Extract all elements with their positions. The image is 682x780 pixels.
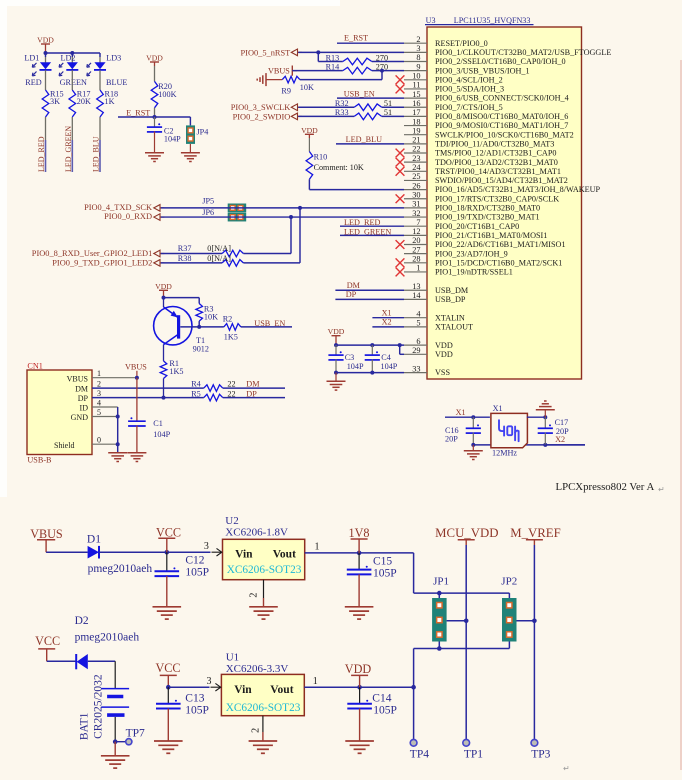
svg-text:GREEN: GREEN — [60, 78, 87, 87]
svg-text:LED_BLU: LED_BLU — [346, 135, 382, 144]
U3 pin 5 XTALOUT — [404, 319, 473, 332]
resistor R9 — [266, 76, 314, 95]
net label DP (pin 14) — [335, 290, 404, 299]
svg-text:5: 5 — [97, 408, 101, 417]
ground below C14 — [345, 741, 374, 753]
U3 pin 24 TRST — [396, 163, 561, 176]
U1 pin 2 to ground — [249, 716, 278, 754]
svg-text:XTALIN: XTALIN — [435, 313, 465, 322]
svg-text:10: 10 — [412, 72, 420, 81]
wire LD1 cathode to resistor — [45, 70, 47, 90]
junction VBUS pin1 — [135, 376, 139, 380]
U3 pin 20 PIO0_22 — [396, 236, 566, 249]
net label USB_EN (pin 15) — [337, 90, 404, 99]
svg-text:105P: 105P — [373, 705, 397, 717]
svg-text:LED_RED: LED_RED — [37, 136, 46, 172]
svg-text:VCC: VCC — [156, 525, 181, 539]
svg-text:X2: X2 — [555, 435, 565, 444]
svg-text:4: 4 — [97, 398, 101, 407]
junction 1V8 node — [357, 551, 362, 556]
svg-text:Vin: Vin — [234, 684, 252, 696]
page edge mark — [563, 60, 681, 773]
svg-text:X1: X1 — [456, 408, 466, 417]
U3 pin 28 PIO1_15 — [396, 255, 563, 268]
resistor R32 — [298, 99, 404, 111]
power MCU_VDD — [435, 526, 498, 545]
wire R13 to pin 8 — [372, 61, 404, 63]
svg-text:1: 1 — [313, 676, 318, 687]
svg-text:pmeg2010aeh: pmeg2010aeh — [88, 563, 153, 575]
resistor R4 (DM series) — [191, 380, 235, 392]
svg-text:VBUS: VBUS — [30, 527, 63, 541]
capacitor C16 — [445, 417, 481, 445]
CN1 pin 5 GND stub — [92, 408, 118, 417]
svg-text:0[N/A]: 0[N/A] — [207, 244, 231, 253]
junction JP1 middle to MCU_VDD — [464, 619, 469, 624]
svg-text:X1: X1 — [493, 404, 503, 413]
power VDD (LED rail) — [37, 36, 54, 54]
wire U1 Vout to VDD — [304, 676, 413, 687]
svg-text:LD3: LD3 — [106, 54, 121, 63]
svg-text:XC6206-3.3V: XC6206-3.3V — [226, 663, 289, 675]
ground below BAT1 — [101, 742, 130, 768]
U3 pin 17 PIO0_8 — [404, 108, 568, 121]
svg-text:VBUS: VBUS — [125, 363, 147, 372]
net label DM (pin 13) — [335, 281, 404, 290]
U3 pin 32 PIO0_19 — [404, 209, 540, 222]
net label VBUS (CN1) — [125, 363, 147, 378]
wire LD1 net — [37, 117, 46, 172]
junction VDD rail — [334, 343, 402, 347]
net label E_RST — [126, 109, 150, 118]
svg-text:6: 6 — [416, 337, 420, 346]
svg-text:29: 29 — [412, 346, 420, 355]
svg-text:1: 1 — [416, 264, 420, 273]
svg-text:USB_DM: USB_DM — [435, 286, 469, 295]
svg-text:TP1: TP1 — [464, 748, 483, 760]
svg-text:100K: 100K — [158, 90, 176, 99]
svg-text:PIO0_5_nRST: PIO0_5_nRST — [241, 49, 291, 58]
U3 pin 16 PIO0_7 — [404, 99, 503, 112]
U3 pin 18 PIO0_9 — [404, 117, 568, 130]
capacitor C3 — [328, 345, 364, 371]
ground below C12 — [153, 607, 182, 619]
CN1 pin 2 DM stub — [92, 379, 204, 388]
svg-text:20: 20 — [412, 236, 420, 245]
svg-text:VDD: VDD — [435, 350, 453, 359]
ground below C2 — [145, 153, 164, 162]
U3 pin 4 XTALIN — [404, 309, 465, 322]
svg-text:PIO0_3_SWCLK: PIO0_3_SWCLK — [231, 103, 291, 112]
svg-text:DM: DM — [347, 281, 361, 290]
wire TP4 vertical — [413, 687, 415, 739]
svg-text:LED_BLU: LED_BLU — [92, 136, 101, 172]
svg-text:20K: 20K — [77, 97, 91, 106]
IC U3 LPC11U35_HVQFN33 body — [425, 16, 582, 379]
svg-text:PIO0_17/RTS/CT32B0_CAP0/SCLK: PIO0_17/RTS/CT32B0_CAP0/SCLK — [435, 194, 559, 203]
svg-text:C1: C1 — [153, 419, 163, 428]
svg-text:R9: R9 — [281, 86, 291, 95]
svg-text:PIO0_18/RXD/CT32B0_MAT0: PIO0_18/RXD/CT32B0_MAT0 — [435, 204, 540, 213]
svg-text:PIO0_4/SCL/IOH_2: PIO0_4/SCL/IOH_2 — [435, 75, 503, 84]
svg-text:9: 9 — [416, 62, 420, 71]
wire LD2 cathode to resistor — [71, 70, 73, 90]
U3 pin 2 RESET — [404, 35, 488, 48]
svg-text:D1: D1 — [87, 533, 101, 545]
svg-text:14: 14 — [412, 291, 421, 300]
wire D1 to VCC node — [99, 551, 211, 553]
svg-text:104P: 104P — [347, 362, 364, 371]
svg-text:33: 33 — [412, 364, 420, 373]
svg-text:SWDIO/PIO0_15/AD4/CT32B1_MAT2: SWDIO/PIO0_15/AD4/CT32B1_MAT2 — [435, 176, 568, 185]
svg-text:VDD: VDD — [435, 341, 453, 350]
header JP1 — [432, 576, 466, 649]
svg-text:VSS: VSS — [435, 368, 450, 377]
svg-text:1K: 1K — [105, 97, 115, 106]
capacitor C4 — [365, 345, 398, 371]
svg-text:8: 8 — [416, 53, 420, 62]
capacitor C12 — [155, 552, 210, 607]
U3 pin 15 PIO0_6 — [404, 90, 569, 103]
resistor R13 — [326, 53, 388, 65]
net label LED_BLU (pin 21) — [336, 135, 404, 144]
svg-text:3: 3 — [204, 541, 209, 552]
resistor R5 (DP series) — [191, 389, 235, 401]
ground (R9 pulldown) — [257, 73, 266, 86]
wire step to pin 29 — [400, 345, 404, 354]
capacitor C2 — [147, 117, 181, 153]
U3 pin 30 PIO0_17 — [396, 190, 560, 203]
svg-text:19: 19 — [412, 126, 420, 135]
svg-text:13: 13 — [412, 282, 420, 291]
capacitor C14 — [347, 687, 397, 741]
svg-text:PIO0_2/SSEL0/CT16B0_CAP0/IOH_0: PIO0_2/SSEL0/CT16B0_CAP0/IOH_0 — [435, 57, 566, 66]
svg-text:DM: DM — [75, 385, 88, 394]
svg-text:Vout: Vout — [270, 684, 293, 696]
junction TXD wire — [298, 206, 302, 210]
svg-text:VCC: VCC — [156, 661, 181, 675]
svg-text:BLUE: BLUE — [106, 78, 127, 87]
junction JP1 top — [437, 591, 442, 596]
wire VCC to U1 — [168, 686, 209, 688]
power VDD (T1) — [155, 282, 172, 298]
svg-text:TP7: TP7 — [126, 728, 145, 740]
wire T1 collector to R1 — [163, 345, 165, 361]
wire nRST drop to R13 — [318, 52, 343, 61]
svg-text:1: 1 — [97, 369, 101, 378]
wire battery to ground — [114, 717, 116, 742]
svg-text:VCC: VCC — [35, 634, 60, 648]
svg-text:VDD: VDD — [37, 36, 54, 45]
resistor R15 — [42, 89, 63, 117]
port PIO0_2_SWDIO — [233, 112, 302, 121]
svg-text:R33: R33 — [335, 108, 349, 117]
junction RXD wire — [289, 215, 293, 219]
svg-text:PIO0_0_RXD: PIO0_0_RXD — [104, 212, 152, 221]
junction VSS rail — [334, 371, 374, 375]
ground below C1 — [127, 453, 146, 462]
power VCC (D2) — [35, 634, 60, 661]
wire RXD to pin 32 — [161, 216, 404, 218]
LED LD1 — [24, 54, 51, 88]
svg-text:30: 30 — [412, 190, 420, 199]
junction VCC/C13 — [166, 685, 171, 690]
svg-text:VDD: VDD — [301, 126, 318, 135]
wire ID/GND/Shield to ground — [116, 407, 120, 453]
svg-text:D2: D2 — [75, 615, 89, 627]
svg-text:JP4: JP4 — [197, 128, 209, 137]
svg-text:LPC11U35_HVQFN33: LPC11U35_HVQFN33 — [454, 16, 531, 25]
svg-text:ID: ID — [80, 404, 89, 413]
svg-text:C4: C4 — [381, 353, 391, 362]
svg-text:X1: X1 — [382, 308, 392, 317]
svg-text:27: 27 — [412, 245, 420, 254]
svg-text:PIO0_5/SDA/IOH_3: PIO0_5/SDA/IOH_3 — [435, 85, 504, 94]
wire VDD to R3 — [164, 298, 200, 304]
power VDD (U1 out) — [345, 662, 372, 687]
svg-text:0[N/A]: 0[N/A] — [207, 254, 231, 263]
svg-text:LPCXpresso802 Ver A: LPCXpresso802 Ver A — [556, 481, 655, 493]
wire M_VREF vertical — [533, 545, 535, 739]
wire VDD to R20 — [154, 66, 156, 81]
ground below C16 — [464, 445, 483, 460]
wire LED top rail — [46, 53, 101, 63]
U3 pin 19 SWCLK — [404, 126, 574, 139]
capacitor C15 — [347, 553, 397, 607]
resistor R14 — [326, 62, 388, 74]
svg-text:DM: DM — [246, 380, 260, 389]
svg-text:1K5: 1K5 — [224, 332, 238, 341]
power 1V8 — [349, 526, 370, 553]
wire R10 to pin 26 — [309, 179, 404, 189]
header JP6 — [202, 208, 246, 221]
wire MCU_VDD vertical — [465, 545, 467, 739]
U3 pin 8 PIO0_2 — [404, 53, 566, 66]
svg-text:PIO1_19/nDTR/SSEL1: PIO1_19/nDTR/SSEL1 — [435, 268, 513, 277]
svg-text:7: 7 — [416, 218, 420, 227]
svg-text:RED: RED — [25, 78, 41, 87]
junction E_RST node — [153, 115, 157, 119]
svg-text:21: 21 — [412, 136, 420, 145]
wire VDD rail to pin 6 — [336, 344, 404, 346]
svg-text:VDD: VDD — [155, 282, 172, 291]
svg-text:U3: U3 — [426, 16, 436, 25]
svg-text:28: 28 — [412, 255, 420, 264]
svg-text:RESET/PIO0_0: RESET/PIO0_0 — [435, 39, 488, 48]
resistor R1 — [160, 359, 183, 379]
svg-text:105P: 105P — [373, 568, 397, 580]
svg-text:USB_EN: USB_EN — [344, 90, 375, 99]
wire crystal right to X2 node — [527, 416, 545, 418]
svg-text:TP3: TP3 — [531, 748, 550, 760]
svg-text:MCU_VDD: MCU_VDD — [435, 526, 498, 540]
U3 pin 27 PIO0_23 — [404, 245, 508, 258]
svg-text:2: 2 — [97, 379, 101, 388]
svg-text:Vin: Vin — [235, 549, 253, 561]
U3 pin 3 PIO0_1 — [404, 44, 611, 57]
header JP5 — [202, 197, 246, 213]
svg-text:22: 22 — [227, 380, 235, 389]
junction VCC node — [165, 550, 170, 555]
svg-text:TDI/PIO0_11/AD0/CT32B0_MAT3: TDI/PIO0_11/AD0/CT32B0_MAT3 — [435, 139, 554, 148]
svg-text:11: 11 — [413, 81, 421, 90]
svg-text:XTALOUT: XTALOUT — [435, 322, 473, 331]
svg-text:32: 32 — [412, 209, 420, 218]
net label LED_GREEN (pin 12) — [340, 227, 404, 236]
svg-text:PIO0_3/USB_VBUS/IOH_1: PIO0_3/USB_VBUS/IOH_1 — [435, 66, 530, 75]
svg-text:TRST/PIO0_14/AD3/CT32B1_MAT1: TRST/PIO0_14/AD3/CT32B1_MAT1 — [435, 167, 561, 176]
wire VBUS to D1 — [46, 551, 88, 553]
svg-text:VDD: VDD — [345, 662, 372, 676]
wire nRST to pin 3 — [298, 51, 404, 53]
power VDD (R10) — [301, 126, 318, 138]
svg-text:R4: R4 — [191, 380, 201, 389]
U3 pin 25 SWDIO — [404, 172, 568, 185]
svg-text:PIO0_23/AD7/IOH_9: PIO0_23/AD7/IOH_9 — [435, 249, 508, 258]
port PIO0_8_RXD_User_GPIO2_LED1 — [32, 249, 165, 258]
svg-text:18: 18 — [412, 117, 420, 126]
wire R14 to pin 9 — [372, 70, 404, 72]
svg-text:JP2: JP2 — [501, 576, 517, 588]
svg-text:SWCLK/PIO0_10/SCK0/CT16B0_MAT2: SWCLK/PIO0_10/SCK0/CT16B0_MAT2 — [435, 130, 574, 139]
svg-text:12: 12 — [412, 227, 420, 236]
power VDD (R20) — [146, 54, 163, 67]
junction pin9/R9 — [380, 69, 384, 73]
power VCC (C13) — [156, 661, 181, 687]
svg-text:23: 23 — [412, 154, 420, 163]
svg-text:22: 22 — [412, 145, 420, 154]
svg-text:2: 2 — [251, 728, 262, 733]
svg-text:R38: R38 — [178, 254, 192, 263]
ground above (crystal) — [536, 401, 555, 417]
ground below VSS rail — [327, 373, 346, 391]
junction JP2 middle to M_VREF — [532, 619, 537, 624]
svg-text:17: 17 — [412, 108, 420, 117]
header JP4 — [186, 117, 208, 144]
svg-text:JP5: JP5 — [202, 197, 214, 206]
net label X1 (crystal) — [445, 408, 490, 417]
resistor R17 — [69, 89, 91, 117]
svg-text:VDD: VDD — [328, 327, 345, 336]
svg-text:VBUS: VBUS — [67, 374, 88, 383]
U3 pin 23 TDO — [396, 154, 558, 167]
capacitor C1 — [128, 378, 170, 453]
transistor T1 9012 — [154, 298, 209, 354]
svg-text:GND: GND — [71, 413, 89, 422]
svg-text:105P: 105P — [185, 567, 209, 579]
junction base node — [197, 325, 201, 329]
svg-text:↵: ↵ — [658, 485, 665, 494]
ground below C13 — [154, 741, 183, 753]
wire crystal bottom — [473, 444, 585, 446]
svg-text:20P: 20P — [445, 435, 458, 444]
svg-text:PIO0_22/AD6/CT16B1_MAT1/MISO1: PIO0_22/AD6/CT16B1_MAT1/MISO1 — [435, 240, 566, 249]
svg-text:JP6: JP6 — [202, 208, 214, 217]
svg-text:C17: C17 — [555, 418, 569, 427]
LED LD2 — [59, 54, 87, 88]
header JP2 — [501, 576, 534, 649]
capacitor C17 — [538, 417, 569, 445]
svg-text:C3: C3 — [345, 353, 355, 362]
svg-text:TDO/PIO0_13/AD2/CT32B1_MAT0: TDO/PIO0_13/AD2/CT32B1_MAT0 — [435, 158, 558, 167]
wire VDD to JP rail bottom — [414, 649, 510, 688]
svg-text:XC6206-SOT23: XC6206-SOT23 — [227, 564, 302, 576]
net label X2 (pin 5) — [372, 318, 404, 327]
power VDD (decoupling) — [328, 327, 345, 345]
svg-text:1: 1 — [315, 542, 320, 553]
svg-text:PIO0_4_TXD_SCK: PIO0_4_TXD_SCK — [84, 203, 152, 212]
CN1 pin 1 VBUS stub — [92, 369, 137, 378]
net label USB_EN (T1) — [241, 319, 292, 328]
resistor R18 — [97, 89, 118, 117]
CN1 pin 0 Shield stub — [92, 436, 118, 445]
diode D2 pmeg2010aeh — [75, 615, 140, 669]
svg-text:JP1: JP1 — [433, 576, 449, 588]
net label E_RST (pin 2) — [337, 34, 404, 44]
svg-text:26: 26 — [412, 181, 420, 190]
svg-text:2: 2 — [249, 593, 260, 598]
svg-text:TP4: TP4 — [410, 748, 429, 760]
svg-text:PIO0_7/CTS/IOH_5: PIO0_7/CTS/IOH_5 — [435, 103, 503, 112]
svg-text:PIO0_1/CLKOUT/CT32B0_MAT2/USB_: PIO0_1/CLKOUT/CT32B0_MAT2/USB_FTOGGLE — [435, 48, 611, 57]
U3 pin 10 PIO0_4 — [396, 72, 503, 85]
wire R37 to RXD net — [243, 217, 291, 253]
svg-text:104P: 104P — [164, 135, 181, 144]
svg-text:XC6206-SOT23: XC6206-SOT23 — [226, 702, 301, 714]
regulator U2 XC6206-1.8V — [204, 515, 305, 580]
wire LD2 net — [64, 117, 73, 172]
power VCC (C12) — [156, 525, 181, 552]
svg-text:51: 51 — [384, 99, 392, 108]
connector CN1 USB-B body — [27, 362, 92, 465]
test point TP7 — [115, 728, 145, 745]
U3 pin 14 USB_DP — [404, 291, 466, 304]
regulator U1 XC6206-3.3V — [207, 652, 305, 716]
svg-text:TMS/PIO0_12/AD1/CT32B1_CAP0: TMS/PIO0_12/AD1/CT32B1_CAP0 — [435, 149, 556, 158]
junction dots on LED rail — [44, 51, 75, 55]
wire R3 to base node — [198, 321, 200, 327]
U3 pin 26 PIO0_16 — [404, 181, 601, 194]
svg-text:R14: R14 — [326, 62, 340, 71]
svg-text:1K5: 1K5 — [169, 367, 183, 376]
port PIO0_9_TXD_GPIO1_LED2 — [52, 259, 164, 268]
junction VDD/JP rail — [411, 685, 416, 690]
resistor R2 — [223, 315, 241, 342]
svg-text:PIO0_9_TXD_GPIO1_LED2: PIO0_9_TXD_GPIO1_LED2 — [52, 259, 152, 268]
port PIO0_4_TXD_SCK — [84, 203, 164, 212]
U3 pin 33 VSS — [404, 364, 450, 377]
svg-text:15: 15 — [412, 90, 420, 99]
U3 pin 7 PIO0_20 — [404, 218, 519, 231]
svg-text:C15: C15 — [373, 556, 392, 568]
svg-text:pmeg2010aeh: pmeg2010aeh — [75, 632, 140, 644]
resistor R20 — [151, 81, 176, 107]
svg-text:C13: C13 — [185, 692, 204, 704]
svg-text:0: 0 — [97, 436, 101, 445]
wire D2 to battery — [88, 661, 115, 688]
port PIO0_0_RXD — [104, 212, 164, 221]
svg-text:LD1: LD1 — [24, 54, 39, 63]
U3 pin 1 PIO1_19 — [396, 264, 513, 277]
svg-text:10K: 10K — [204, 313, 218, 322]
svg-text:R10: R10 — [314, 153, 328, 162]
wire R9 to pin 9 node — [300, 71, 382, 80]
resistor R10 — [306, 138, 364, 179]
U3 pin 12 PIO0_21 — [404, 227, 547, 240]
junction X2 node — [543, 415, 547, 447]
junction TP7 node — [113, 739, 118, 744]
svg-text:PIO0_9/MOSI0/CT16B0_MAT1/IOH_7: PIO0_9/MOSI0/CT16B0_MAT1/IOH_7 — [435, 121, 568, 130]
